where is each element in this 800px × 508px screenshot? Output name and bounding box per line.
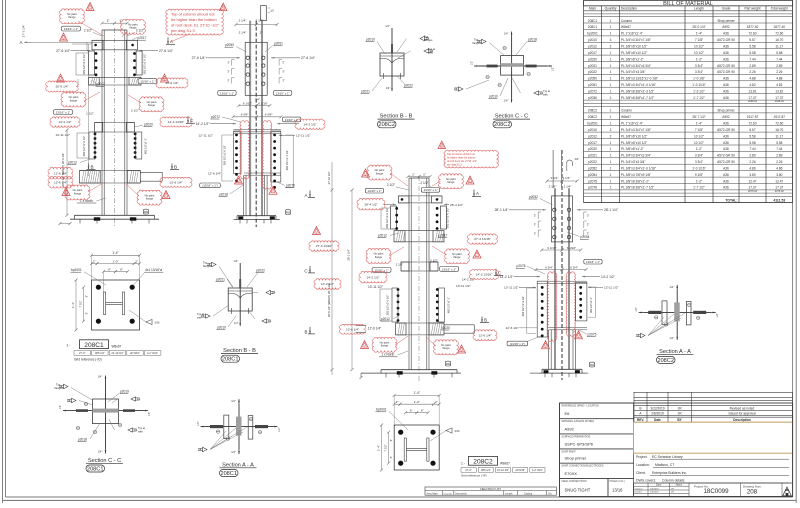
svg-text:A992: A992 [565,426,575,431]
svg-text:p2021: p2021 [588,64,597,68]
svg-text:13/16" x 1": 13/16" x 1" [220,91,234,95]
svg-text:flange: flange [375,255,383,259]
svg-text:p2017: p2017 [138,36,147,40]
svg-text:A992: A992 [722,25,730,29]
level-1 shear plates 208C1 [88,51,94,75]
svg-text:PL 3/8"x6"x10 1/2": PL 3/8"x6"x10 1/2" [621,141,647,145]
BOM rows 208C1 [584,22,793,24]
sheet border inner left [5,0,7,497]
svg-text:7 1/8": 7 1/8" [695,128,703,132]
svg-text:A36: A36 [723,141,729,145]
svg-text:PL 3/4"x3 3/4"x7 1/8": PL 3/4"x3 3/4"x7 1/8" [621,128,651,132]
svg-text:12'-11 1/2": 12'-11 1/2" [604,286,619,290]
base plate detail 208C1 [67,251,164,361]
svg-text:2 1/2": 2 1/2" [396,263,404,267]
svg-text:1/4": 1/4" [98,375,103,379]
svg-text:3": 3" [227,61,229,65]
svg-text:72.60: 72.60 [749,32,757,36]
svg-text:7.44: 7.44 [776,57,782,61]
svg-text:1'-0 1/16": 1'-0 1/16" [692,167,705,171]
svg-text:1 1/2": 1 1/2" [86,112,94,116]
svg-text:3B2 1/2"x1'-0 1/2": 3B2 1/2"x1'-0 1/2" [446,208,450,229]
svg-text:flange: flange [148,103,156,107]
svg-text:10 1/2": 10 1/2" [694,134,704,138]
svg-text:6 3/4": 6 3/4" [241,113,249,117]
top stub plate 208C2 side [552,150,554,188]
tick brackets 208C1 side [231,60,233,66]
svg-text:13/16" x 1": 13/16" x 1" [586,260,600,264]
svg-text:TOTAL:: TOTAL: [725,198,737,202]
svg-text:flange: flange [74,191,82,195]
svg-text:1'-4": 1'-4" [71,302,75,308]
base plate 208C2 elevation [381,369,457,371]
red leader from note box [170,34,190,42]
svg-text:1: 1 [610,57,612,61]
svg-text:A36: A36 [723,89,729,93]
column shaft 208C2 [408,178,410,370]
svg-text:MATERIAL (UNLESS NOTED): MATERIAL (UNLESS NOTED) [562,420,595,423]
svg-text:2: 2 [610,45,612,49]
13/16 box right level-1 [138,79,157,84]
svg-text:2.89: 2.89 [749,154,755,158]
svg-text:16.70: 16.70 [775,128,783,132]
svg-text:Name: Name [676,484,683,487]
svg-text:2.26: 2.26 [749,70,755,74]
svg-text:A: A [20,40,23,45]
svg-text:p2052: p2052 [588,167,597,171]
svg-text:208C1: 208C1 [588,25,598,29]
top dim 208C1 [102,22,115,24]
svg-text:6 1/16": 6 1/16" [567,246,576,250]
svg-text:2075.02: 2075.02 [748,190,758,193]
svg-text:6": 6" [120,267,123,271]
svg-text:p2021: p2021 [361,89,370,93]
svg-text:p2022: p2022 [404,83,413,87]
svg-text:1/4": 1/4" [669,285,674,289]
svg-text:2 1/2": 2 1/2" [420,181,428,185]
svg-text:3": 3" [587,214,589,218]
svg-text:13.81: 13.81 [775,89,783,93]
svg-text:A992: A992 [722,115,730,119]
svg-text:12'-6 1/4": 12'-6 1/4" [208,172,221,176]
svg-text:Top of column shoud not: Top of column shoud not [171,11,215,16]
svg-text:13/16" x 1": 13/16" x 1" [424,188,438,192]
svg-text:PL 3/8"x6"x1'-2": PL 3/8"x6"x1'-2" [621,57,644,61]
svg-text:Total weight: Total weight [771,6,788,10]
svg-text:Location:: Location: [636,463,650,467]
weld note 208C2 base [430,431,446,442]
tick brackets 208C2 side [537,212,539,219]
svg-text:12'-11 1/2": 12'-11 1/2" [198,134,213,138]
svg-text:3B2 1/2"x1'-0 1/2": 3B2 1/2"x1'-0 1/2" [82,54,86,75]
svg-text:1'-7 1/2": 1'-7 1/2" [693,96,705,100]
svg-text:EC Scranton Library: EC Scranton Library [652,455,683,459]
svg-text:web: web [197,315,202,319]
svg-text:PL 3/8"x3 3/4"x1'-0 1/16": PL 3/8"x3 3/4"x1'-0 1/16" [621,83,656,87]
svg-text:14'-2 1/2": 14'-2 1/2" [303,122,316,126]
svg-text:Section A - A: Section A - A [659,349,691,355]
svg-text:5.58: 5.58 [776,51,782,55]
svg-text:JR: JR [671,492,674,494]
svg-text:2.26: 2.26 [776,160,782,164]
svg-text:2.89: 2.89 [776,64,782,68]
column 208C1 elevation front view [54,19,180,227]
svg-text:1: 1 [610,83,612,87]
svg-text:1/4": 1/4" [386,86,391,90]
svg-text:PL 3/8"x3 13/16"x1'-0 1/8": PL 3/8"x3 13/16"x1'-0 1/8" [621,77,658,81]
svg-text:21'-10 3/4": 21'-10 3/4" [111,352,123,355]
svg-text:Quantity: Quantity [444,492,453,495]
svg-text:W8x67: W8x67 [500,461,510,465]
no paint flange labels 208C1 [60,9,164,205]
svg-text:p2050: p2050 [588,77,597,81]
svg-text:Section B - B: Section B - B [223,348,256,354]
svg-text:C: C [304,269,307,274]
svg-text:3/16: 3/16 [154,321,160,325]
svg-text:p2012: p2012 [588,134,597,138]
svg-text:72.60: 72.60 [775,122,783,126]
svg-text:2 1/4": 2 1/4" [239,18,247,22]
svg-text:PL 3/4"x3"x3 3/4": PL 3/4"x3"x3 3/4" [621,160,646,164]
svg-text:p2072: p2072 [588,89,597,93]
svg-text:1'-0": 1'-0" [113,259,119,263]
svg-text:Column details: Column details [662,479,685,483]
svg-text:REFERENCE DRWG - LOCATION: REFERENCE DRWG - LOCATION [562,404,599,407]
svg-text:1/4": 1/4" [231,399,236,403]
svg-text:p2010: p2010 [217,325,226,329]
svg-text:Column: Column [621,19,632,23]
svg-text:p2052: p2052 [529,195,538,199]
svg-text:3": 3" [534,223,536,227]
svg-text:6 3/4": 6 3/4" [545,265,553,269]
svg-text:1'-2": 1'-2" [696,147,702,151]
title block bottom strip [634,483,793,497]
svg-text:1'-7 1/2": 1'-7 1/2" [693,186,705,190]
svg-text:PL 1"x16"x1'-4": PL 1"x16"x1'-4" [621,122,643,126]
column 208C2 elevation front view [356,172,490,381]
level-4 seats 208C1 [80,170,141,172]
shear plates 208C1 side [234,131,241,173]
svg-text:12.47: 12.47 [749,179,757,183]
svg-text:1/4": 1/4" [233,259,238,263]
svg-text:Shop primer: Shop primer [717,109,735,113]
svg-text:Coating: Coating [524,492,533,495]
red note box top-left [166,9,223,35]
svg-text:26'-6 1/4": 26'-6 1/4" [55,85,68,89]
svg-text:p2017: p2017 [588,141,597,145]
svg-text:PL 3/8"x8 3/8"x1'-3 1/2": PL 3/8"x8 3/8"x1'-3 1/2" [621,89,654,93]
section C-C 208C2 view [454,32,555,103]
svg-text:of roof deck, EL 27'10 -1/2": of roof deck, EL 27'10 -1/2" [447,160,477,163]
svg-text:14'-2 1/2": 14'-2 1/2" [321,282,334,286]
svg-text:3": 3" [282,70,284,74]
svg-text:1877.40: 1877.40 [747,25,759,29]
BOM subtotal 208C2 [584,192,793,194]
svg-text:W8x67: W8x67 [621,115,631,119]
svg-text:3B2 1/2"x1'-0 1/2": 3B2 1/2"x1'-0 1/2" [386,295,390,316]
svg-text:(13/16" x 1"): (13/16" x 1") [202,184,217,188]
level-1 seats 208C1 [88,76,141,78]
svg-text:13.81: 13.81 [749,89,757,93]
splice plate outline 208C1 side [245,42,267,95]
title block field connections box [560,479,609,497]
svg-text:A36: A36 [723,167,729,171]
svg-text:1: 1 [610,115,612,119]
red warning triangles 208C2 [362,169,370,177]
level-1 plates 208C2 [391,206,397,229]
svg-text:208: 208 [747,488,758,495]
svg-text:flange: flange [70,98,78,102]
svg-text:PL 3/8"x6"x1'-2": PL 3/8"x6"x1'-2" [621,147,644,151]
svg-text:B: B [484,318,487,323]
svg-text:28'-4 1/2": 28'-4 1/2" [450,203,463,207]
svg-text:1'-4": 1'-4" [112,251,118,255]
svg-text:2 1/4": 2 1/4" [563,176,571,180]
svg-text:4.82: 4.82 [749,83,755,87]
svg-text:3": 3" [282,61,284,65]
svg-text:3/16: 3/16 [454,429,460,433]
svg-text:REV.: REV. [637,418,644,422]
svg-text:4.82: 4.82 [776,83,782,87]
svg-text:27'-0": 27'-0" [465,469,471,472]
svg-text:aH 9/16": aH 9/16" [515,469,525,472]
svg-text:flange: flange [381,344,389,348]
svg-text:JR: JR [671,488,674,490]
level-2 labels 208C1 [54,110,73,115]
svg-text:208C2: 208C2 [473,458,493,465]
BOM table frame [584,1,793,203]
svg-text:2.89: 2.89 [776,154,782,158]
svg-text:web: web [428,50,433,54]
anchor bolts 208C1 base [96,285,101,290]
svg-text:Assy Mark: Assy Mark [427,492,439,495]
beam flange lines 208C2 side [537,280,587,282]
svg-text:1: 1 [610,186,612,190]
left dim structure 208C2 [166,37,503,375]
svg-text:p2054: p2054 [588,173,597,177]
splice plate outline 208C2 side [552,196,573,242]
base plate 208C1 elevation [75,214,155,216]
svg-text:2.26: 2.26 [776,70,782,74]
svg-text:Set: Set [548,492,552,495]
svg-text:bp2001: bp2001 [376,408,387,412]
svg-text:27'-6 1/4": 27'-6 1/4" [301,56,316,60]
svg-text:1'-2": 1'-2" [696,57,702,61]
svg-text:3": 3" [534,214,536,218]
svg-text:p2075: p2075 [588,333,597,337]
svg-text:Description: Description [733,418,751,422]
svg-text:1/4": 1/4" [385,24,390,28]
svg-text:2 1/2": 2 1/2" [84,29,92,33]
svg-text:be higher than the bottom: be higher than the bottom [171,17,217,22]
svg-text:27'-10 1/2": 27'-10 1/2" [327,172,331,185]
svg-text:1: 1 [610,70,612,74]
svg-text:1: 1 [610,167,612,171]
svg-text:W8x67: W8x67 [112,345,122,349]
svg-text:2": 2" [135,259,138,263]
top hole boxes 208C2 [365,188,383,193]
svg-text:B: B [90,165,93,170]
svg-text:3/22/2019: 3/22/2019 [650,406,664,410]
svg-text:4B2 1/2"x1'-1": 4B2 1/2"x1'-1" [447,297,451,313]
svg-text:1/2": 1/2" [197,421,200,425]
svg-text:p2020: p2020 [144,123,153,127]
svg-text:13'-11 1/2": 13'-11 1/2" [368,285,383,289]
svg-text:p2020: p2020 [588,147,597,151]
svg-text:1: 1 [610,64,612,68]
svg-text:12'-6 1/4": 12'-6 1/4" [368,326,381,330]
svg-text:1'-4": 1'-4" [696,32,702,36]
svg-text:13/16" x 1": 13/16" x 1" [285,118,299,122]
svg-text:28'-7 1/2": 28'-7 1/2" [692,115,705,119]
svg-text:13'-11 1/2": 13'-11 1/2" [504,286,519,290]
svg-text:3": 3" [534,232,536,236]
svg-text:10 1/2": 10 1/2" [694,51,704,55]
svg-text:208C2: 208C2 [378,122,394,128]
shear plates 208C2 side [537,281,547,337]
svg-text:1": 1" [107,19,110,23]
svg-text:27'-3 1/4": 27'-3 1/4" [22,25,26,38]
svg-text:B: B [639,406,641,410]
svg-text:Project:: Project: [636,455,648,459]
svg-text:flanges: flanges [473,41,482,45]
section B-B 208C1 view [197,259,276,330]
svg-text:1/2": 1/2" [635,307,638,311]
lower column box 208C1 side [243,175,245,216]
svg-text:1: 1 [610,51,612,55]
svg-text:A36: A36 [723,122,729,126]
svg-text:4x1 13/16"ø: 4x1 13/16"ø [145,268,162,272]
svg-text:Description: Description [621,6,637,10]
field bolts level-2 208C2 side [541,286,544,289]
svg-text:5.58: 5.58 [749,45,755,49]
svg-text:1: 1 [610,19,612,23]
svg-text:1 x North: 1 x North [381,352,394,356]
svg-text:FIELD BOLT LIST: FIELD BOLT LIST [480,487,501,491]
svg-text:Section C - C: Section C - C [88,458,121,464]
svg-text:A36: A36 [723,45,729,49]
svg-text:12'-6 1/4": 12'-6 1/4" [506,326,519,330]
svg-text:1'-4": 1'-4" [377,445,381,451]
svg-text:14'-2 1/2": 14'-2 1/2" [58,120,71,124]
svg-text:14'-2 1/2": 14'-2 1/2" [366,275,379,279]
svg-text:1'-0 1/16": 1'-0 1/16" [692,83,705,87]
grid dims row 208C1 [74,351,91,356]
red note box above 208C2 [444,150,498,168]
svg-text:27'-6 1/4": 27'-6 1/4" [192,56,207,60]
svg-text:208C2: 208C2 [657,358,673,364]
svg-text:7.44: 7.44 [776,147,782,151]
svg-text:1'-3 1/2": 1'-3 1/2" [693,89,705,93]
svg-text:1/4: 1/4 [198,448,202,452]
svg-text:1: 1 [610,154,612,158]
column section on base 208C1 [104,292,106,315]
svg-text:2/6/2019: 2/6/2019 [651,411,664,415]
level-1 bolts 208C1 [95,52,98,55]
level-3 bolts 208C1 [94,133,97,136]
hole size boxes 208C1 side [218,91,236,96]
svg-text:p2020: p2020 [441,326,450,330]
svg-text:1: 1 [610,109,612,113]
svg-text:p2012: p2012 [588,45,597,49]
svg-text:1: 1 [610,141,612,145]
svg-text:1/4: 1/4 [268,319,272,323]
svg-text:1/4": 1/4" [98,450,103,454]
left dim structure 208C1 [20,25,102,217]
field bolt list table [425,487,556,495]
svg-text:PL 3/8"x3 7/8"x9 1/8": PL 3/8"x3 7/8"x9 1/8" [621,173,651,177]
sheet border inner bottom [6,496,793,498]
svg-text:bp2001: bp2001 [587,122,598,126]
sheet border outer left [2,0,4,503]
svg-text:6 1/16": 6 1/16" [547,246,556,250]
svg-text:14'-2 1/2": 14'-2 1/2" [601,275,616,279]
svg-text:flanges: flanges [55,386,64,390]
svg-text:1/4": 1/4" [231,450,236,454]
svg-text:13/16" x 1": 13/16" x 1" [56,111,70,115]
base detail dims left 208C1 [75,280,77,330]
svg-text:11.17: 11.17 [775,45,783,49]
svg-text:A36: A36 [723,32,729,36]
sheet border outer right [795,0,797,503]
svg-text:p2010: p2010 [366,37,375,41]
svg-text:7 1/8": 7 1/8" [695,38,703,42]
svg-text:4111.53: 4111.53 [773,198,785,202]
svg-text:2.89: 2.89 [749,64,755,68]
svg-text:Date: Date [654,418,661,422]
svg-text:A36: A36 [723,96,729,100]
svg-text:6": 6" [389,439,393,441]
top stub plate 208C1 side [261,6,267,21]
base detail dims top 208C2 [394,394,439,396]
svg-text:p2012: p2012 [68,161,77,165]
base plate 208C1 side [237,215,276,217]
svg-text:26'-6 1/4": 26'-6 1/4" [165,81,178,85]
svg-text:3B2 1/2"x1'-0 1/2": 3B2 1/2"x1'-0 1/2" [385,208,389,229]
svg-text:1: 1 [610,96,612,100]
red warning triangle above note box [220,3,228,11]
svg-text:Grade: Grade [722,6,731,10]
section C-C 208C1 view [55,375,152,454]
svg-text:1/4: 1/4 [272,291,276,295]
svg-text:flange: flange [376,171,384,175]
svg-text:10 1/2": 10 1/2" [694,45,704,49]
svg-text:DWG covers:: DWG covers: [636,479,656,483]
svg-text:13/16" x 1": 13/16" x 1" [374,268,388,272]
svg-text:2/5/2019: 2/5/2019 [650,488,659,490]
svg-text:2036.91: 2036.91 [775,100,785,103]
svg-text:flange: flange [146,197,154,201]
svg-text:PL 3/8"x6"x10 1/2": PL 3/8"x6"x10 1/2" [621,51,647,55]
svg-text:3 3/4": 3 3/4" [695,160,703,164]
svg-text:2.26: 2.26 [749,160,755,164]
svg-text:p2012: p2012 [96,82,105,86]
svg-text:bH5 1/4": bH5 1/4" [481,469,491,472]
section A-A 208C2 view [635,285,719,340]
svg-text:PL 1"x16"x1'-4": PL 1"x16"x1'-4" [621,32,643,36]
svg-text:p2076: p2076 [286,184,295,188]
svg-text:Enterprise Builders Inc.: Enterprise Builders Inc. [652,471,687,475]
svg-text:p2010: p2010 [588,128,597,132]
svg-text:Section C - C: Section C - C [495,114,528,120]
svg-text:6 1/16": 6 1/16" [243,101,252,105]
svg-text:7.44: 7.44 [749,57,755,61]
svg-text:Quantity: Quantity [605,6,617,10]
svg-text:5.58: 5.58 [749,51,755,55]
svg-text:A572-GR 50: A572-GR 50 [717,70,735,74]
svg-text:Shop primer: Shop primer [717,19,735,23]
svg-text:2 1/2": 2 1/2" [387,183,395,187]
